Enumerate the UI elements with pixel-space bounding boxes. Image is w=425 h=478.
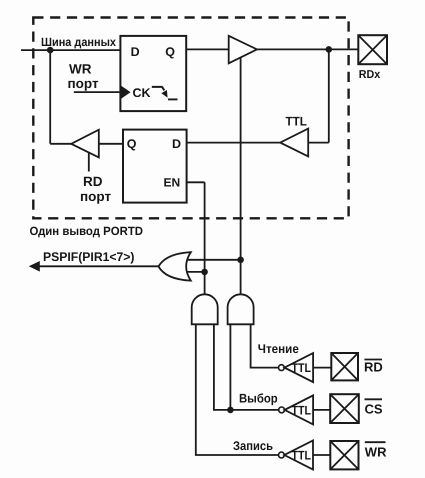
svg-text:Шина данных: Шина данных [41,35,116,49]
wire EN of U2 to write AND gate [187,182,205,294]
pin RDx (crossed box) [358,35,387,64]
svg-text:Запись: Запись [233,439,273,453]
arrowhead PSPIF [29,261,40,272]
wire OR lower input from write AND [187,271,205,273]
or-gate U3 (interrupt OR) [159,252,191,280]
label RD (active low) [364,359,382,361]
svg-text:D: D [172,137,181,151]
svg-text:WR: WR [365,445,387,460]
pin WR (crossed box) [330,441,358,469]
svg-text:Q: Q [127,137,137,151]
svg-text:EN: EN [164,175,181,189]
node junction on data bus [47,47,54,54]
wire into TTL buffer [308,142,329,144]
svg-text:TTL: TTL [286,115,308,129]
svg-text:Выбор: Выбор [239,392,278,406]
label WR (active low) [365,441,386,443]
read buffer (drives data bus) [71,130,99,158]
wire Q of U1 to output buffer [186,48,229,50]
latch U2 (read latch) [123,130,187,203]
wire Q of U2 to read buffer [99,143,123,145]
wire CS net to read AND input [229,324,231,410]
svg-text:TTL: TTL [292,403,312,417]
wire OR upper input from read AND [187,259,241,261]
wire RD pin to TTL [313,367,331,369]
svg-text:порт: порт [68,76,99,91]
TTL buffer U8 (WR pin input) [279,452,285,458]
node junction OR lower input [201,269,208,276]
wire RD net to read AND input [251,324,279,367]
svg-text:RD: RD [364,360,383,375]
and-gate U4 (write strobe CS·WR) [192,294,218,324]
svg-text:CS: CS [365,401,383,416]
svg-text:PSPIF(PIR1<7>): PSPIF(PIR1<7>) [43,250,135,264]
wire pin junction down to TTL input buffer [328,49,330,142]
node junction OR upper input [237,257,244,264]
svg-text:TTL: TTL [292,361,312,375]
wire data bus into D of U1 [21,49,120,51]
node junction on pin wire [326,46,333,53]
svg-text:CK: CK [133,86,151,100]
svg-text:RD: RD [83,174,103,189]
wire OR output to PSPIF [37,265,159,267]
wire buffer output to RDx pin [257,48,358,50]
node junction CS net [227,407,234,414]
and-gate U5 (read strobe CS·RD) [228,294,254,324]
wire CS pin to TTL [313,409,330,411]
wire junction down to read buffer output [49,50,51,144]
falling-edge clock symbol [152,87,165,91]
svg-text:Q: Q [165,45,175,59]
TTL buffer U6 (RD pin input) [279,365,285,371]
TTL input buffer (pin to D of U2) [280,129,308,157]
dashed enclosure (one PORTD pin cell) [33,18,348,219]
pin CS (crossed box) [330,394,359,423]
svg-text:RDx: RDx [359,69,381,81]
TTL buffer U7 (CS pin input) [279,407,285,413]
wire WR port to CK [74,91,121,93]
svg-text:порт: порт [80,189,111,204]
CK input wedge (U1) [121,86,131,99]
pin RD (crossed box) [331,353,358,380]
wire WR net to write AND input [196,324,279,455]
svg-text:D: D [131,45,140,59]
wire RD-port enable into read buffer [88,153,90,172]
wire read buffer output to data bus [50,143,71,145]
output buffer (tri-state to pin) [229,36,257,64]
svg-text:Один вывод PORTD: Один вывод PORTD [30,224,144,238]
svg-text:WR: WR [69,62,92,77]
wire CS net to write AND input [214,324,279,410]
flip-flop U1 (write latch) [120,36,186,111]
svg-text:TTL: TTL [292,448,312,462]
wire TTL buffer to D of U2 [187,142,281,144]
wire output-enable from read AND gate [240,58,242,295]
svg-text:Чтение: Чтение [258,342,299,356]
label CS (active low) [365,398,383,400]
wire WR pin to TTL [313,454,330,456]
